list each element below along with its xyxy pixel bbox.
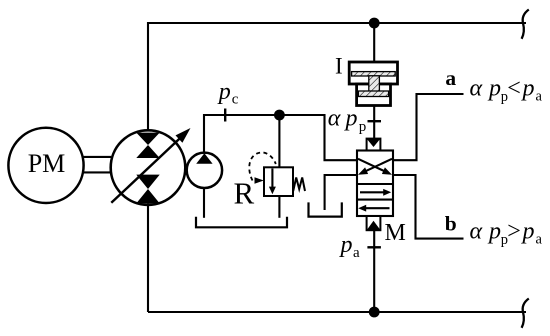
shaft lower line — [84, 171, 112, 173]
node p_c junction — [274, 110, 285, 121]
node top junction — [369, 18, 380, 29]
valve M cell divider 1 — [357, 183, 393, 185]
wire valve to a — [393, 94, 464, 160]
charge pump triangle — [196, 153, 212, 164]
svg-text:R: R — [234, 175, 255, 210]
shaft upper line — [84, 156, 112, 158]
intensifier I piston head hatched — [352, 72, 396, 76]
valve M crossed arrow 2 — [363, 159, 392, 172]
svg-text:b: b — [445, 212, 457, 236]
wire p_a line — [373, 230, 375, 312]
wire valve to tank T2 — [325, 175, 357, 210]
pump variable displacement arrow — [111, 137, 181, 203]
wire intensifier to valve — [373, 106, 375, 140]
tick alpha p_p measuring point — [368, 120, 382, 122]
wire top supply line — [148, 23, 526, 133]
valve M outlet triangle — [367, 221, 380, 230]
wire p_c line left — [204, 115, 279, 153]
valve M body — [357, 151, 393, 217]
valve M flow arrow left — [366, 207, 390, 209]
valve M outlet port socket — [367, 216, 381, 230]
valve M crossed arrow 1 — [358, 159, 387, 172]
intensifier I lower piston hatched — [358, 91, 388, 97]
tick p_c measuring point — [224, 109, 226, 122]
wire intensifier inlet — [373, 23, 375, 63]
svg-text:αpp: αpp — [328, 105, 367, 135]
relief valve R spring — [293, 178, 305, 192]
svg-text:αpp<pa: αpp<pa — [470, 76, 543, 105]
node bottom junction — [369, 307, 380, 318]
relief valve R inlet wire — [278, 115, 280, 167]
wire valve to b — [393, 175, 464, 239]
relief valve R pilot dashed line — [249, 152, 276, 180]
intensifier I wide cylinder — [349, 62, 397, 84]
break symbol top right — [522, 10, 529, 39]
intensifier I narrow cylinder — [357, 84, 391, 106]
wire bottom return line — [148, 311, 526, 313]
motor PM circle — [8, 128, 83, 203]
charge pump circle — [187, 153, 222, 188]
wire pump bottom — [147, 203, 149, 312]
relief valve R pilot arrowhead — [255, 177, 264, 184]
svg-text:pa: pa — [339, 232, 361, 261]
svg-text:M: M — [385, 220, 406, 246]
pump hourglass lower — [136, 175, 159, 189]
wire charge pump to tank — [203, 188, 205, 218]
relief valve R body — [264, 167, 293, 196]
valve M inlet port socket — [367, 139, 381, 151]
intensifier I piston stem hatched — [369, 76, 380, 92]
valve M flow arrow right — [360, 191, 384, 193]
tick p_a measuring point — [367, 246, 381, 248]
svg-text:pc: pc — [217, 79, 239, 107]
tank T1 — [196, 217, 287, 228]
svg-text:I: I — [335, 54, 343, 79]
relief valve R internal arrow — [271, 169, 273, 188]
valve M cell divider 2 — [357, 199, 393, 201]
relief valve R outlet wire — [278, 196, 280, 218]
svg-text:PM: PM — [28, 149, 66, 178]
valve M inlet triangle — [367, 139, 381, 147]
wire p_c to valve — [279, 115, 357, 160]
break symbol bottom right — [522, 299, 529, 328]
svg-text:a: a — [445, 66, 456, 90]
svg-text:αpp>pa: αpp>pa — [470, 219, 543, 248]
pump hourglass upper — [136, 133, 159, 145]
pump P circle — [111, 130, 186, 205]
tank T2 — [309, 202, 342, 216]
